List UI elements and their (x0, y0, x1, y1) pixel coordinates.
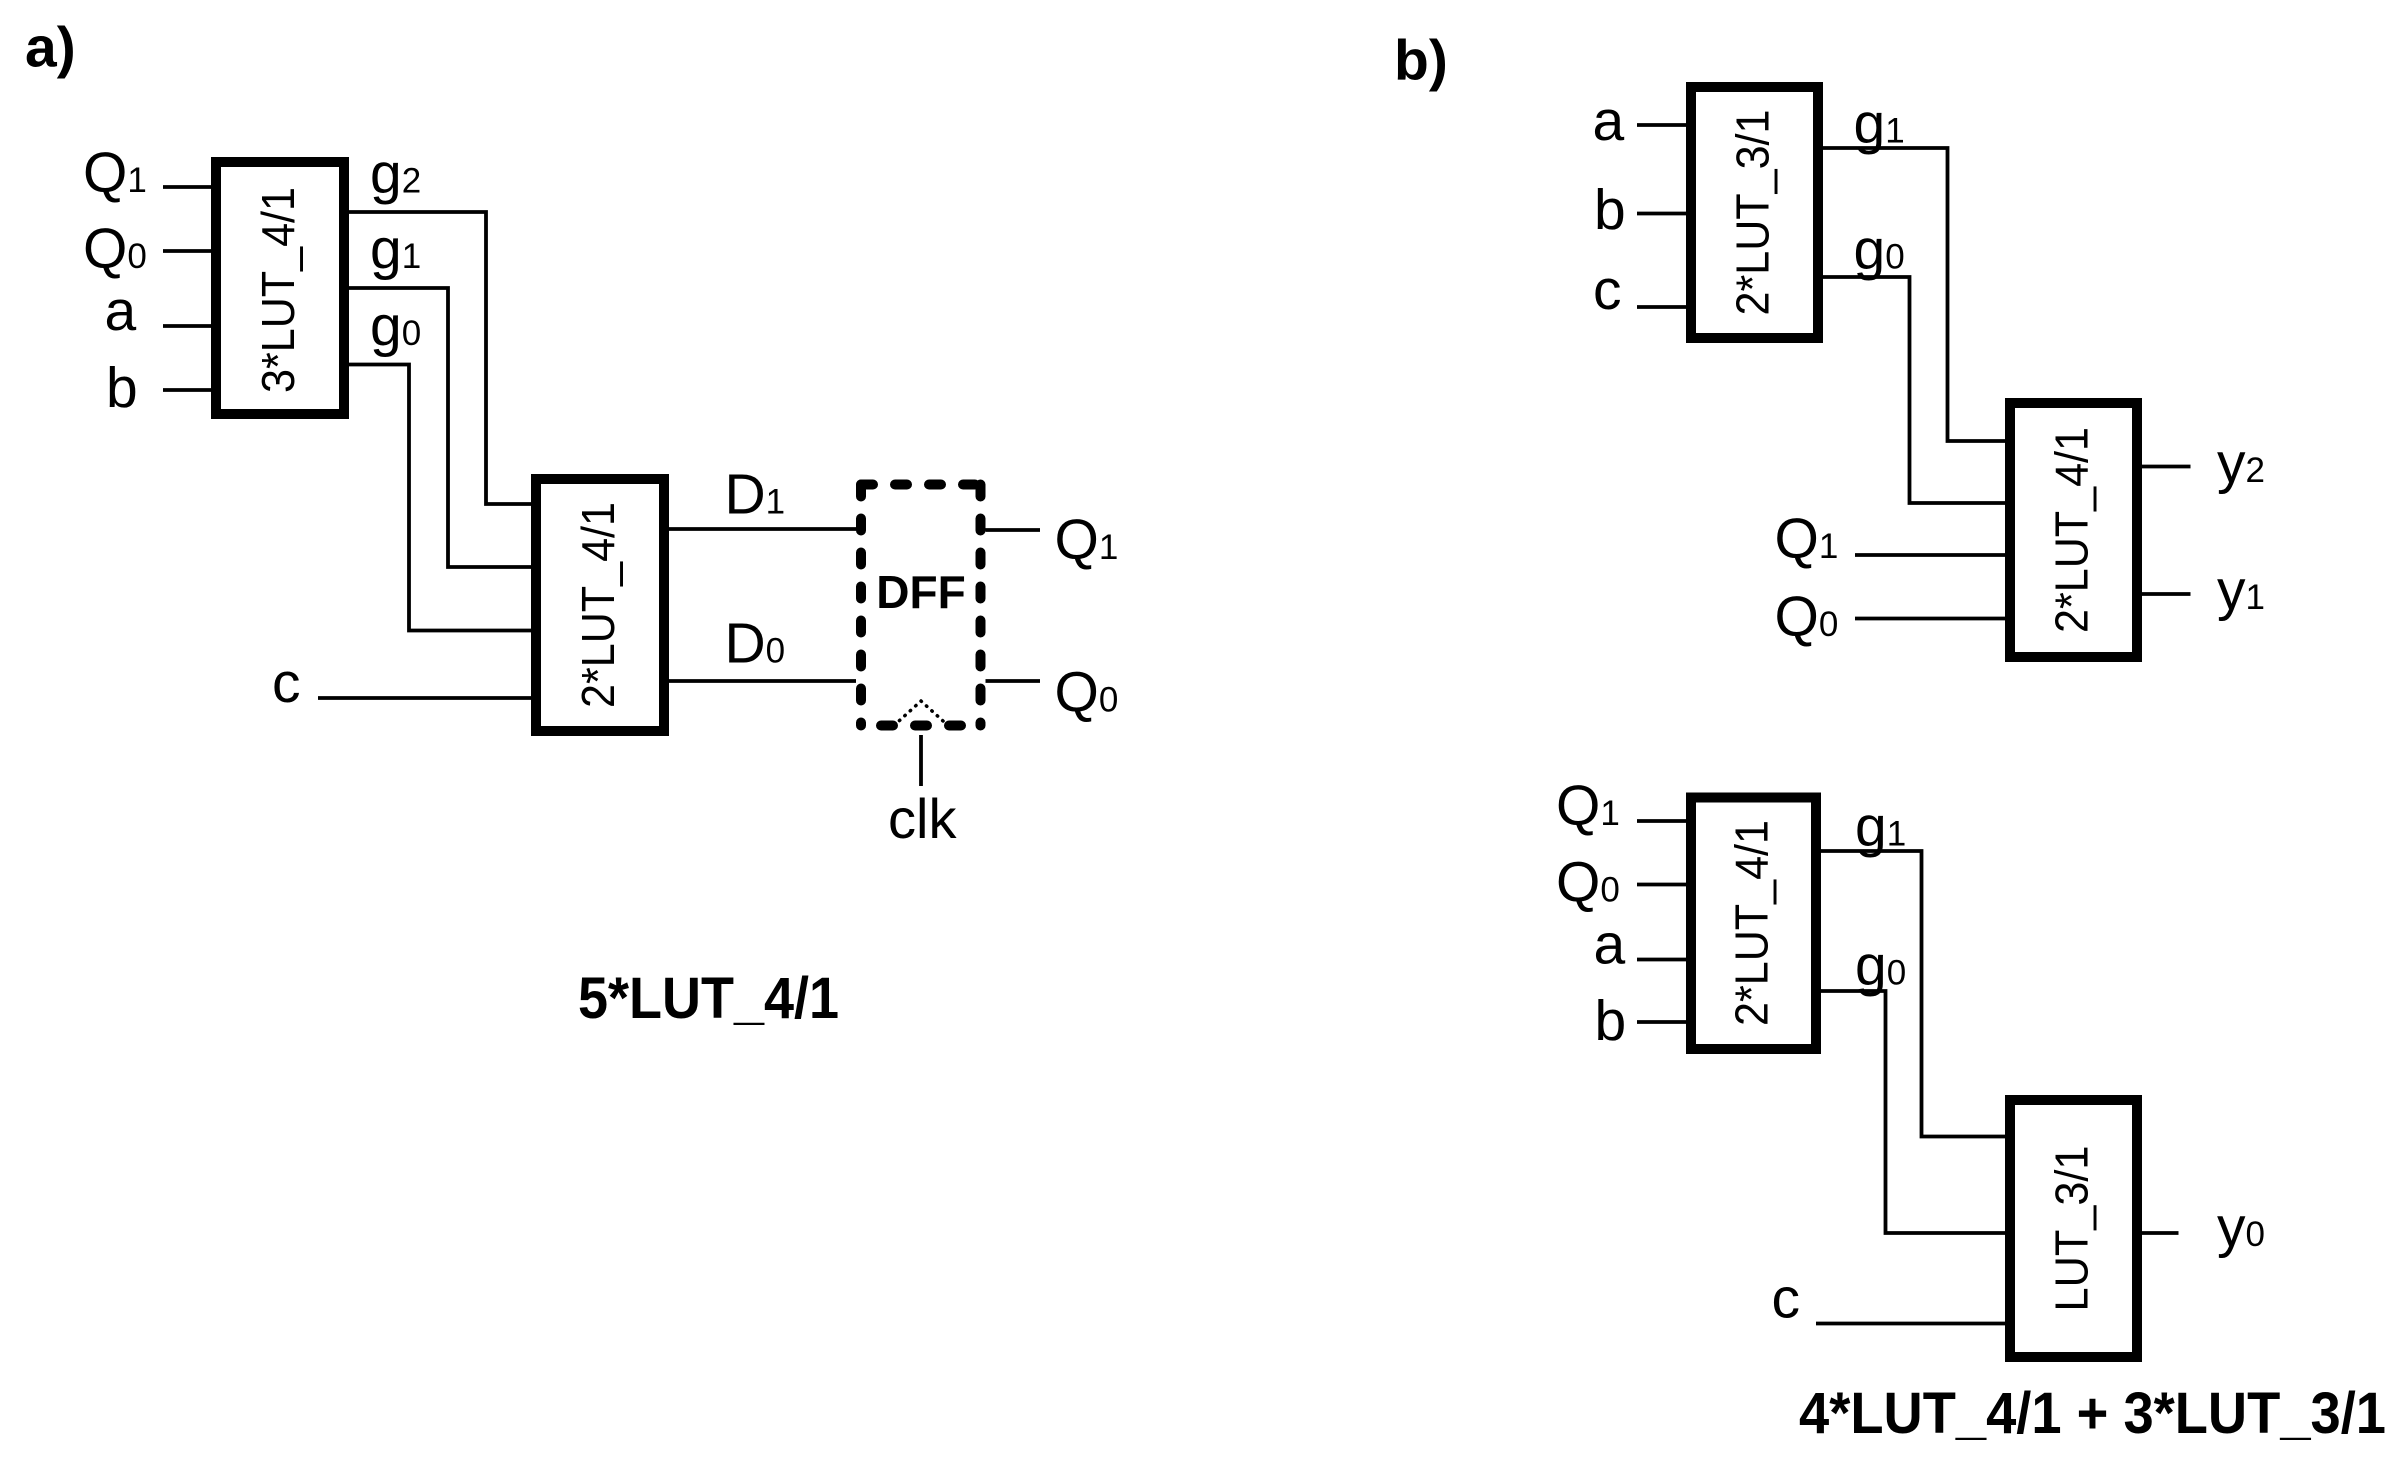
svg-text:2*LUT_3/1: 2*LUT_3/1 (1727, 110, 1779, 316)
wire input b to U4 (1637, 212, 1686, 216)
wire input c to U7 (1816, 1322, 2005, 1326)
wire output y0 from U7 (2142, 1231, 2179, 1235)
wire g2 from U1 to U2 (349, 212, 531, 504)
svg-text:a: a (1594, 913, 1626, 977)
wire output Q1 from U3 (986, 528, 1041, 532)
wire input Q0 to U5 (1855, 617, 2005, 621)
svg-text:5*LUT_4/1: 5*LUT_4/1 (578, 966, 839, 1031)
svg-text:3*LUT_4/1: 3*LUT_4/1 (252, 187, 304, 393)
LUT block U4: 2*LUT_3/1 (1691, 87, 1818, 338)
svg-text:b: b (1595, 989, 1627, 1053)
LUT block U7: LUT_3/1 (2010, 1100, 2137, 1357)
svg-text:DFF: DFF (876, 566, 965, 618)
wire input Q0 to U6 (1637, 883, 1686, 887)
wire output y1 from U5 (2142, 592, 2191, 596)
wire g0 from U4 to U5 (1823, 277, 2005, 503)
wire input c to U2 (318, 696, 531, 700)
LUT block U1: 3*LUT_4/1 (216, 162, 344, 414)
svg-text:c: c (1593, 258, 1622, 322)
wire input a to U6 (1637, 958, 1686, 962)
wire input c to U4 (1637, 305, 1686, 309)
wire g1 from U4 to U5 (1823, 148, 2005, 441)
wire input Q1 to U6 (1637, 819, 1686, 823)
svg-text:clk: clk (888, 787, 957, 850)
wire input Q1 to U5 (1855, 553, 2005, 557)
LUT block U5: 2*LUT_4/1 (2010, 403, 2137, 657)
svg-text:a): a) (25, 16, 76, 80)
wire input b to U6 (1637, 1020, 1686, 1024)
svg-text:b: b (1594, 178, 1626, 242)
svg-text:a: a (105, 279, 137, 343)
svg-text:LUT_3/1: LUT_3/1 (2046, 1146, 2098, 1312)
svg-text:2*LUT_4/1: 2*LUT_4/1 (2046, 427, 2098, 633)
svg-text:2*LUT_4/1: 2*LUT_4/1 (1726, 820, 1778, 1026)
svg-text:2*LUT_4/1: 2*LUT_4/1 (572, 502, 624, 708)
clock edge triangle of U3 (894, 701, 948, 726)
wire input a to U1 (163, 324, 211, 328)
wire g1 from U6 to U7 (1821, 851, 2005, 1137)
wire input Q0 to U1 (163, 249, 211, 253)
wire output Q0 from U3 (986, 679, 1041, 683)
svg-text:b: b (106, 356, 138, 420)
wire input Q1 to U1 (163, 185, 211, 189)
svg-text:a: a (1593, 89, 1625, 153)
wire D0 from U2 to DFF (669, 679, 856, 683)
LUT block U2: 2*LUT_4/1 (536, 479, 664, 731)
wire g0 from U1 to U2 (349, 365, 531, 631)
wire clk to U3 (919, 735, 923, 786)
wire g1 from U1 to U2 (349, 288, 531, 567)
wire D1 from U2 to DFF (669, 527, 856, 531)
flip-flop U3: DFF dashed box (861, 485, 981, 726)
wire output y2 from U5 (2142, 465, 2191, 469)
svg-text:b): b) (1394, 29, 1448, 93)
svg-text:c: c (1772, 1267, 1801, 1331)
svg-text:c: c (272, 651, 301, 715)
wire input b to U1 (163, 388, 211, 392)
wire input a to U4 (1637, 123, 1686, 127)
svg-text:4*LUT_4/1 + 3*LUT_3/1: 4*LUT_4/1 + 3*LUT_3/1 (1799, 1381, 2386, 1446)
wire g0 from U6 to U7 (1821, 991, 2005, 1233)
LUT block U6: 2*LUT_4/1 (b bottom) (1691, 798, 1816, 1050)
